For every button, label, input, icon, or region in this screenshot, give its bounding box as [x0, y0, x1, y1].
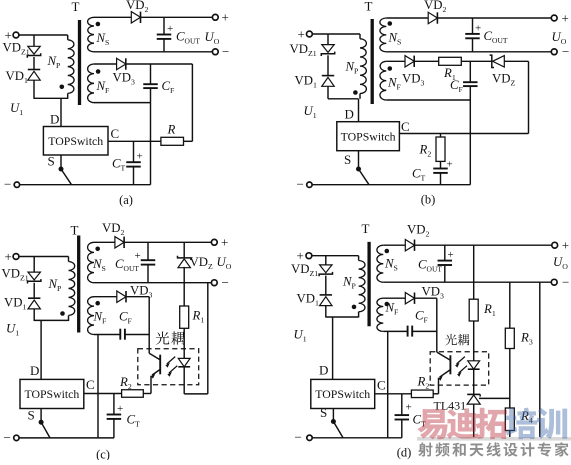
transistor photodetector (c): [149, 353, 160, 375]
svg-text:TOPSwitch: TOPSwitch: [341, 130, 396, 144]
svg-text:−: −: [4, 177, 11, 192]
label CT (a): [112, 157, 126, 173]
svg-text:−: −: [562, 44, 569, 59]
capacitor COUT (a): [157, 17, 172, 52]
label R4 (d): [520, 409, 533, 425]
wire: node down to opto collector (c): [148, 335, 150, 354]
label R2 (b): [419, 143, 432, 159]
shunt regulator TL431 (d): [467, 394, 480, 404]
diode VD1 (c): [28, 298, 40, 309]
node: DC input - terminal (c): [4, 430, 20, 445]
wire: secondary top (c): [94, 241, 115, 243]
label guang-ou optocoupler (d): [445, 334, 469, 345]
label R1 (d): [483, 302, 496, 318]
label VD2 (a): [126, 0, 148, 14]
wire: clamp branch bottom (c): [33, 309, 35, 321]
wire: bottom return rail (a): [20, 184, 151, 186]
winding NF feedback (a): [88, 64, 94, 103]
label T (b): [365, 0, 373, 14]
node: primary phase dot (c): [60, 311, 65, 316]
label (b): [421, 193, 436, 207]
label VDZ1 (a): [3, 41, 30, 57]
label NF (a): [96, 79, 111, 95]
wire: clamp branch bottom (b): [327, 87, 329, 99]
resistor R4 (d): [505, 408, 514, 431]
winding NF feedback (d): [377, 298, 383, 331]
svg-text:+: +: [221, 235, 228, 250]
winding NF feedback (c): [88, 297, 94, 335]
winding NS secondary (b): [380, 18, 386, 52]
optocoupler dashed box (c): [138, 349, 199, 385]
capacitor COUT (c): [141, 242, 156, 282]
wire: secondary top (b): [386, 17, 428, 19]
wire: between VDZ1 and VD1 (d): [325, 276, 327, 295]
node: output - terminal (a): [212, 44, 229, 59]
light arrows (d): [455, 357, 467, 377]
op-amp U2 TOPSwitch block (b): [337, 122, 400, 151]
label + of CT (a): [137, 151, 143, 163]
winding NP primary (d): [359, 256, 365, 318]
label VDZ (c): [190, 255, 213, 271]
wire: secondary bottom - rail (c): [94, 282, 211, 284]
wire: R2 to CT (b): [440, 161, 442, 168]
wire: secondary top (a): [94, 16, 131, 18]
label U1 (b): [304, 104, 317, 120]
wire: VD3 to corner drop (c): [127, 297, 150, 335]
diode VD1 (a): [28, 70, 40, 81]
capacitor CT (d): [395, 394, 410, 438]
resistor R1 (d): [469, 299, 478, 321]
wire: source switch diagonal (b): [359, 169, 370, 185]
wire: VD3 to R1 (b): [415, 60, 439, 62]
label VD3 (b): [402, 72, 424, 88]
wire: clamp branch top (a): [33, 35, 35, 46]
svg-text:TOPSwitch: TOPSwitch: [24, 387, 79, 401]
label C pin (a): [111, 126, 120, 141]
wire: NF return drop (d): [387, 331, 389, 437]
node: NS phase dot (a): [96, 22, 101, 27]
wire: NF bottom (b): [386, 99, 470, 101]
svg-text:D: D: [345, 107, 354, 122]
light arrows (c): [165, 357, 177, 377]
label + of COUT (a): [167, 23, 173, 35]
label S pin (b): [344, 152, 351, 167]
svg-text:D: D: [30, 363, 39, 378]
capacitor CF horizontal (c): [120, 329, 125, 340]
label VD2 (d): [407, 223, 429, 239]
node: source junction dot (c): [39, 420, 44, 425]
capacitor CT (b): [433, 169, 448, 185]
diode VD3 (c): [117, 291, 126, 302]
label + of CT (d): [406, 402, 412, 414]
node: NF phase dot (a): [96, 69, 101, 74]
label S pin (d): [320, 405, 327, 420]
wire: right feedback drop (a): [191, 64, 193, 141]
label VD3 (a): [113, 71, 135, 87]
wire: secondary bottom - rail (d): [383, 281, 551, 283]
svg-text:+: +: [406, 402, 412, 414]
capacitor COUT (d): [438, 245, 453, 282]
wire: control pin (a): [108, 140, 161, 142]
svg-text:(a): (a): [119, 193, 133, 207]
label VD3 (d): [422, 285, 444, 301]
label VDZ1 (c): [2, 267, 29, 283]
op-amp U4 TOPSwitch block (d): [311, 379, 375, 408]
node: output + terminal (b): [551, 10, 569, 25]
diode VD2 (a): [131, 12, 140, 23]
node: emitter arrow (d): [438, 376, 443, 381]
svg-text:S: S: [320, 405, 327, 420]
transformer core T (c): [77, 236, 80, 333]
wire: bottom primary link (d): [326, 316, 359, 318]
wire: secondary top (d): [383, 244, 405, 246]
node: NS phase dot (d): [385, 249, 390, 254]
wire: bottom return rail (b): [312, 184, 470, 186]
wire: + rail drop to R1 (d): [473, 245, 475, 299]
svg-text:S: S: [344, 152, 351, 167]
watermark logo and caption: [417, 408, 571, 457]
node: DC input + terminal (d): [297, 248, 312, 263]
svg-text:TOPSwitch: TOPSwitch: [315, 387, 370, 401]
node: DC input - terminal (a): [4, 177, 20, 192]
wire: VDZ to right corner drop (b): [504, 61, 528, 133]
diode VD3 (b): [405, 56, 414, 67]
node: source junction dot (d): [331, 419, 336, 424]
winding NS secondary (c): [88, 242, 94, 282]
wire: secondary bottom (b): [386, 51, 551, 53]
resistor R1 (b): [439, 57, 462, 65]
svg-text:+: +: [167, 23, 173, 35]
svg-text:(d): (d): [397, 446, 412, 460]
label + of COUT (b): [475, 23, 481, 35]
label COUT (d): [418, 258, 442, 274]
resistor R (a): [161, 137, 184, 145]
label NF (d): [385, 301, 400, 317]
svg-text:−: −: [297, 177, 304, 192]
wire: R1 to VDZ (b): [461, 60, 492, 62]
wire: opto loop bottom (c): [184, 393, 208, 395]
svg-text:−: −: [222, 44, 229, 59]
label T (d): [362, 221, 370, 236]
label + of CT (c): [117, 403, 123, 415]
wire: LED cathode down (c): [183, 367, 185, 394]
transformer core T (b): [371, 19, 374, 104]
node: DC input + terminal (a): [5, 28, 19, 43]
node: DC input - terminal (d): [295, 430, 313, 445]
label NS (c): [92, 257, 106, 273]
label NS (b): [388, 31, 402, 47]
node: emitter arrow (c): [151, 374, 156, 379]
wire: secondary top to + output (d): [415, 244, 552, 246]
wire: source lead (b): [358, 151, 360, 169]
wire: secondary bottom (a): [94, 51, 212, 53]
wire: opto loop return up to - rail (c): [207, 283, 209, 394]
wire: top primary rail (b): [312, 33, 360, 35]
label VD2 (c): [102, 221, 124, 237]
label R2 (d): [417, 375, 430, 391]
label VD1 (d): [297, 292, 319, 308]
svg-text:S: S: [48, 154, 55, 169]
op-amp U3 TOPSwitch block (c): [20, 379, 84, 408]
label COUT (b): [484, 29, 508, 45]
label NS (d): [384, 257, 398, 273]
node: output - terminal (c): [211, 275, 228, 290]
wire: CF to node (c): [125, 334, 149, 336]
label COUT (a): [176, 30, 200, 46]
wire: drain lead (a): [60, 98, 62, 126]
node: output - terminal (d): [551, 274, 569, 289]
label guang-ou optocoupler (c): [156, 331, 185, 344]
resistor R2 (b): [436, 134, 445, 162]
node: output + terminal (c): [211, 235, 228, 250]
resistor R2 (c): [122, 390, 144, 398]
label T (a): [72, 0, 80, 14]
label + of COUT (d): [448, 249, 454, 261]
wire: VD3 to corner (a): [126, 63, 192, 65]
wire: NF bottom left (c): [94, 334, 120, 336]
winding NS secondary (d): [377, 245, 383, 282]
label NF (c): [93, 310, 108, 326]
diode VD2 (c): [115, 237, 124, 248]
wire: top primary rail (a): [19, 34, 68, 36]
label CT (b): [412, 167, 426, 183]
label VD1 (b): [295, 74, 317, 90]
label + of COUT (c): [135, 250, 141, 262]
zener VDZ1 (b): [321, 45, 334, 56]
node: primary phase dot (a): [60, 85, 65, 90]
svg-text:T: T: [362, 221, 370, 236]
svg-text:+: +: [5, 249, 12, 264]
node: DC input + terminal (c): [5, 249, 19, 264]
diode VD1 (b): [322, 76, 334, 87]
svg-text:−: −: [222, 275, 229, 290]
label D pin (a): [50, 112, 59, 127]
label NF (b): [387, 76, 402, 92]
svg-text:−: −: [295, 430, 302, 445]
wire: source switch diagonal (d): [333, 422, 343, 438]
label U1 (a): [10, 101, 23, 117]
wire: secondary top to + output (a): [141, 16, 212, 18]
diode VD3 (d): [405, 293, 414, 304]
zener VDZ1 (c): [28, 272, 41, 283]
label (d): [397, 446, 412, 460]
label R1 (c): [192, 309, 205, 325]
transformer core T (d): [367, 242, 370, 326]
wire: TL431 anode down (d): [473, 404, 475, 438]
node: NS phase dot (b): [388, 21, 393, 26]
wire: emitter down to R2 (d): [433, 378, 438, 394]
optocoupler dashed box (d): [430, 352, 489, 385]
svg-text:−: −: [562, 274, 569, 289]
wire: - rail drop to R3 (d): [509, 282, 511, 328]
wire: feedback top (a): [94, 63, 117, 65]
label T (c): [71, 223, 79, 238]
wire: source lead (d): [332, 409, 334, 422]
winding NP primary (c): [69, 257, 75, 322]
svg-text:−: −: [4, 430, 11, 445]
svg-text:T: T: [365, 0, 373, 14]
svg-text:+: +: [117, 403, 123, 415]
wire: between VDZ1 and VD1 (c): [33, 283, 35, 298]
svg-text:+: +: [298, 27, 305, 42]
label VD3 (c): [130, 284, 152, 300]
wire: - rail right return (d): [539, 282, 541, 438]
label VDZ (b): [492, 72, 515, 88]
node: primary phase dot (b): [353, 90, 358, 95]
transistor photodetector (d): [437, 352, 451, 377]
wire: source lead (c): [40, 409, 42, 423]
label NS (a): [96, 31, 110, 47]
label NP (d): [342, 275, 357, 291]
label NP (b): [345, 60, 360, 76]
label COUT (c): [115, 257, 139, 273]
label (a): [119, 193, 133, 207]
label R2 (c): [119, 375, 132, 391]
label R3 (d): [520, 331, 533, 347]
wire: clamp branch top (b): [327, 34, 329, 45]
wire: clamp branch top (d): [325, 256, 327, 265]
label D pin (d): [319, 363, 328, 378]
label (c): [96, 448, 110, 462]
node: output - terminal (b): [551, 44, 569, 59]
diode VD2 (d): [405, 240, 414, 251]
node: source junction dot (a): [59, 167, 64, 172]
wire: bottom primary link (a): [34, 97, 68, 99]
svg-text:T: T: [71, 223, 79, 238]
winding NF feedback (b): [380, 61, 386, 100]
resistor R3 (d): [505, 328, 514, 348]
node: NF phase dot (b): [388, 66, 393, 71]
label R1 (b): [443, 66, 456, 82]
wire: feedback top (d): [383, 297, 405, 299]
wire: TL431 reference to divider (d): [479, 397, 510, 399]
node: NF phase dot (c): [95, 301, 100, 306]
label TL431 (d): [434, 399, 467, 413]
label CF (c): [119, 310, 133, 326]
wire: control pin (d): [375, 393, 412, 395]
svg-text:(b): (b): [421, 193, 436, 207]
wire: CF to node (d): [413, 330, 437, 332]
label U1 (d): [294, 328, 307, 344]
label CF (a): [162, 79, 176, 95]
wire: R to right drop (a): [184, 140, 193, 142]
svg-text:T: T: [72, 0, 80, 14]
label R (a): [167, 123, 176, 137]
winding NP primary (b): [360, 34, 366, 99]
node: DC input - terminal (b): [297, 177, 313, 192]
diode VD3 (a): [117, 58, 126, 69]
winding NS secondary (a): [88, 17, 94, 52]
svg-text:+: +: [475, 23, 481, 35]
op-amp U1 TOPSwitch block (a): [43, 127, 108, 156]
wire: bottom primary link (b): [328, 98, 359, 100]
label VD1 (c): [4, 296, 26, 312]
capacitor CT (a): [126, 141, 141, 184]
wire: clamp branch bottom (d): [325, 306, 327, 318]
svg-text:C: C: [86, 377, 95, 392]
svg-text:(c): (c): [96, 448, 110, 461]
wire: regulator bottom link (d): [474, 437, 540, 439]
wire: clamp branch bottom (a): [33, 81, 35, 99]
LED of optocoupler (c): [178, 358, 190, 366]
svg-text:+: +: [447, 159, 453, 171]
zener VDZ1 (a): [27, 46, 40, 57]
wire: between VDZ1 and VD1 (a): [33, 57, 35, 70]
transformer core T (a): [78, 20, 81, 105]
svg-text:+: +: [135, 250, 141, 262]
wire: R3 to R4 (d): [509, 349, 511, 409]
svg-text:C: C: [401, 119, 410, 134]
label CT (c): [127, 413, 141, 429]
svg-text:D: D: [319, 363, 328, 378]
label UO (c): [217, 255, 232, 271]
capacitor CT (c): [107, 394, 122, 438]
wire: top primary rail (c): [19, 256, 69, 258]
wire: bottom return rail (d): [312, 437, 402, 439]
wire: control pin (c): [84, 393, 122, 395]
wire: bottom return rail (c): [19, 437, 114, 439]
svg-text:R: R: [167, 123, 176, 137]
zener VDZ1 (d): [319, 265, 332, 276]
label CF (b): [450, 78, 464, 94]
capacitor CF (a): [143, 64, 158, 88]
svg-text:+: +: [562, 238, 569, 253]
zener VDZ (b): [490, 55, 505, 67]
svg-text:+: +: [297, 248, 304, 263]
label D pin (c): [30, 363, 39, 378]
capacitor CF horizontal (d): [408, 326, 413, 337]
diode VD1 (d): [320, 295, 332, 306]
wire: clamp branch top (c): [33, 257, 35, 273]
wire: secondary top to + output (b): [438, 17, 551, 19]
wire: drain lead (d): [332, 317, 334, 379]
label UO (a): [205, 30, 220, 46]
label CT (d): [413, 413, 427, 429]
wire: VD3 to corner drop (d): [415, 298, 437, 352]
winding NP primary (a): [68, 35, 74, 99]
label S pin (c): [28, 408, 35, 423]
svg-text:C: C: [111, 126, 120, 141]
label VD2 (b): [424, 0, 446, 14]
wire: drain lead (c): [40, 320, 42, 379]
label D pin (b): [345, 107, 354, 122]
wire: R1 to LED (c): [183, 328, 185, 358]
wire: source switch diagonal (a): [61, 169, 72, 185]
label UO (d): [553, 255, 568, 271]
svg-text:C: C: [377, 378, 386, 393]
label U1 (c): [6, 322, 19, 338]
label C pin (d): [377, 378, 386, 393]
resistor R1 (c): [180, 306, 189, 328]
wire: feedback top (c): [94, 296, 117, 298]
svg-text:+: +: [562, 10, 569, 25]
wire: control pin run (b): [399, 133, 528, 135]
capacitor COUT (b): [465, 18, 480, 52]
svg-text:+: +: [222, 10, 229, 25]
label S pin (a): [48, 154, 55, 169]
label VDZ1 (d): [291, 262, 318, 278]
wire: top primary rail (d): [312, 255, 359, 257]
wire: NF bottom left (d): [383, 330, 407, 332]
wire: NF return drop (c): [97, 335, 99, 438]
wire: NF bottom (a): [94, 102, 151, 104]
label + of CT (b): [447, 159, 453, 171]
node: output + terminal (a): [212, 10, 228, 25]
svg-text:+: +: [137, 151, 143, 163]
svg-text:S: S: [28, 408, 35, 423]
resistor R2 (d): [411, 390, 433, 398]
node: source junction dot (b): [356, 167, 361, 172]
